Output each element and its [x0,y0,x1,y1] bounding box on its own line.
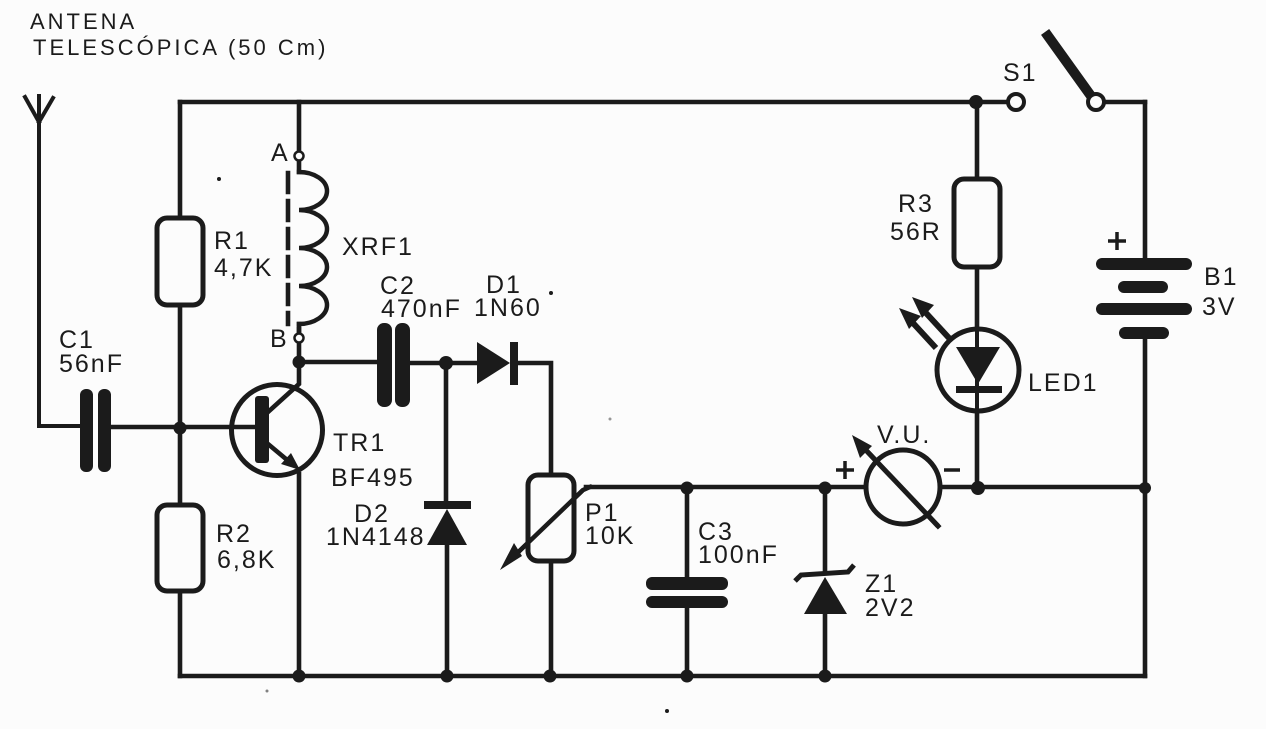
svg-text:3V: 3V [1202,293,1237,321]
svg-text:LED1: LED1 [1028,369,1099,397]
svg-text:XRF1: XRF1 [342,233,414,261]
svg-text:100nF: 100nF [698,541,779,569]
svg-text:4,7K: 4,7K [214,254,273,282]
svg-text:R2: R2 [216,520,252,548]
svg-text:S1: S1 [1003,59,1038,87]
svg-text:470nF: 470nF [381,295,462,323]
svg-text:10K: 10K [585,522,635,550]
svg-text:TELESCÓPICA (50 Cm): TELESCÓPICA (50 Cm) [33,35,328,60]
svg-text:TR1: TR1 [333,429,386,457]
svg-text:1N4148: 1N4148 [326,523,426,551]
svg-text:B1: B1 [1204,263,1239,291]
svg-text:56nF: 56nF [59,350,124,378]
svg-text:56R: 56R [890,218,942,246]
svg-text:BF495: BF495 [331,464,415,492]
svg-text:A: A [271,139,290,167]
svg-text:ANTENA: ANTENA [30,9,137,34]
svg-text:1N60: 1N60 [474,294,542,322]
svg-text:2V2: 2V2 [865,594,915,622]
svg-text:6,8K: 6,8K [217,546,276,574]
svg-text:B: B [270,325,289,353]
svg-text:V.U.: V.U. [877,421,931,449]
svg-text:R3: R3 [898,190,934,218]
svg-text:R1: R1 [214,227,250,255]
